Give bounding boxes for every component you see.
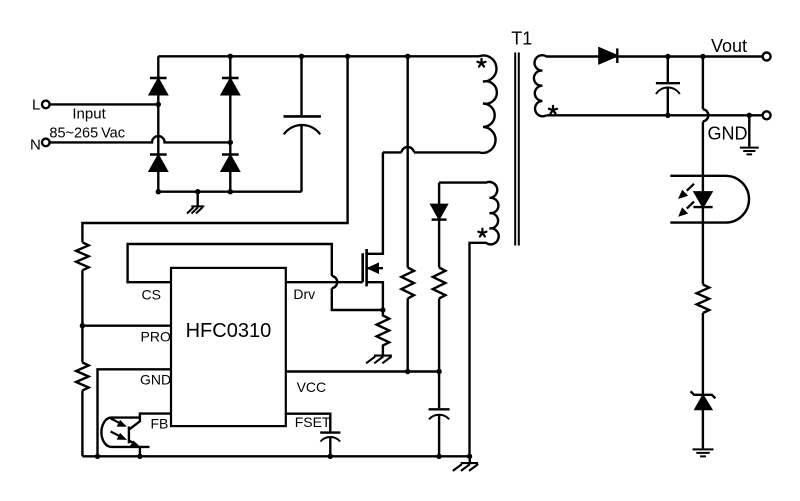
resistor R6 <box>697 285 710 314</box>
node PRO <box>80 323 85 328</box>
node Vout line at opto branch <box>700 54 705 59</box>
wire VCC line <box>286 370 439 372</box>
wire top bus into primary winding T1 <box>158 56 497 153</box>
svg-text:VCC: VCC <box>297 379 327 395</box>
svg-text:HFC0310: HFC0310 <box>186 320 272 342</box>
wire secondary top to Vout <box>599 55 762 57</box>
capacitor C2 (VCC) <box>429 408 450 410</box>
svg-text:N: N <box>30 137 41 154</box>
svg-text:Drv: Drv <box>293 286 315 302</box>
node source sense <box>380 307 385 312</box>
resistor R2 <box>76 363 89 391</box>
diode D3 <box>150 155 167 171</box>
node VCC R4 <box>405 369 410 374</box>
ground (bridge) <box>196 192 198 207</box>
node rail emitter <box>137 454 142 459</box>
node rail C2 <box>436 454 441 459</box>
node rail GND loop <box>95 454 100 459</box>
node star secondary <box>549 106 557 114</box>
optocoupler U2 LED side: package <box>670 176 749 223</box>
wire L to bridge <box>50 103 159 105</box>
node star primary <box>477 59 485 67</box>
capacitor C3 (FSET) <box>320 431 340 433</box>
node N junction <box>228 140 233 145</box>
wire HV feed down-left <box>82 56 347 242</box>
diode D6 (output) <box>599 48 617 63</box>
wire N to bridge with hop <box>50 136 231 142</box>
node Vout line at C4 <box>665 54 670 59</box>
svg-text:FB: FB <box>151 416 169 432</box>
ground (zener) <box>693 449 714 456</box>
wire zener to ground <box>702 409 704 448</box>
ground (bottom rail) <box>469 456 471 463</box>
node GND line at ground <box>747 113 752 118</box>
wire aux diode top <box>438 183 440 205</box>
resistor R5 <box>433 268 446 299</box>
diode D1 <box>150 78 167 94</box>
terminal L <box>42 101 50 109</box>
diode D4 <box>222 155 239 171</box>
optocoupler LED arrow 2 <box>687 202 694 209</box>
resistor R3 (sense) <box>377 310 390 356</box>
wire GND pin loop <box>98 369 172 456</box>
node rail aux return <box>467 454 472 459</box>
wire R4 to VCC line <box>407 299 409 372</box>
node star aux <box>478 229 486 237</box>
wire Drv to gate <box>286 281 363 283</box>
wire R1 to PRO node <box>81 270 83 362</box>
node top bus at D2 <box>228 54 233 59</box>
node bridge bottom left <box>156 189 161 194</box>
wire R6 to zener <box>702 313 704 395</box>
wire aux winding top <box>439 182 499 456</box>
capacitor C4 (output) <box>667 57 669 83</box>
transistor Q1 (MOSFET) <box>361 253 364 282</box>
node top bus at HV feed <box>345 54 350 59</box>
node GND line at C4 <box>665 113 670 118</box>
zener Z1 <box>691 391 716 398</box>
wire bridge left branch <box>157 56 159 191</box>
transformer core <box>515 53 519 246</box>
optocoupler U2 light arrow 2 <box>111 432 119 436</box>
terminal Vout <box>763 53 771 61</box>
wire LED to R6 <box>702 207 704 284</box>
optocoupler U2 transistor bar <box>128 427 130 444</box>
node bridge ground <box>195 189 200 194</box>
wire D5 to R5 <box>438 220 440 268</box>
node L junction <box>156 102 161 107</box>
svg-text:FSET: FSET <box>295 414 331 430</box>
diode D5 (aux) <box>432 205 447 220</box>
wire R5 to VCC line and cap C2 <box>438 299 440 409</box>
svg-text:85~265 Vac: 85~265 Vac <box>49 125 125 141</box>
svg-text:CS: CS <box>142 286 161 302</box>
ground (output GND) <box>748 115 750 146</box>
wire R2 to bottom rail <box>81 391 83 457</box>
wire bottom rail <box>82 455 469 457</box>
node rail C3 <box>328 454 333 459</box>
node VCC R5 <box>436 369 441 374</box>
svg-text:GND: GND <box>708 123 748 143</box>
node bridge bottom mid <box>228 189 233 194</box>
wire HV startup branch <box>407 56 409 267</box>
wire PRO pin <box>82 325 171 327</box>
resistor R1 <box>76 242 89 270</box>
svg-text:Input: Input <box>72 106 106 123</box>
wire bridge middle branch <box>229 56 231 191</box>
wire bridge bottom <box>158 190 301 192</box>
svg-text:PRO: PRO <box>141 329 171 345</box>
LED (opto) <box>693 192 712 207</box>
resistor R4 <box>401 268 414 299</box>
svg-text:GND: GND <box>140 372 171 388</box>
node top bus at C1 <box>299 54 304 59</box>
terminal GND <box>763 111 771 119</box>
svg-text:T1: T1 <box>511 28 532 48</box>
IC U1 HFC0310 <box>171 268 286 426</box>
svg-text:Vout: Vout <box>711 36 747 56</box>
optocoupler U2 light arrow 1 <box>111 418 119 422</box>
wire primary bottom hop to drain <box>383 147 414 153</box>
optocoupler LED arrow 1 <box>687 184 694 191</box>
capacitor C1 (bulk) <box>300 56 302 115</box>
optocoupler U2 emitter with arrow <box>129 441 135 445</box>
wire CS loop to sense node <box>128 244 383 310</box>
wire FSET pin to cap C3 <box>286 414 331 432</box>
wire secondary bottom to GND terminal <box>547 114 763 116</box>
wire Vout branch down with hop <box>703 57 708 193</box>
ground (sense) <box>366 356 392 364</box>
terminal N <box>42 139 50 147</box>
secondary winding <box>534 55 599 116</box>
optocoupler U2 transistor side: package <box>101 418 149 447</box>
svg-text:L: L <box>32 97 40 114</box>
node dots <box>80 54 752 459</box>
wire FB pin to collector <box>129 414 171 430</box>
diode D2 <box>222 78 239 94</box>
node top bus at startup branch <box>405 54 410 59</box>
